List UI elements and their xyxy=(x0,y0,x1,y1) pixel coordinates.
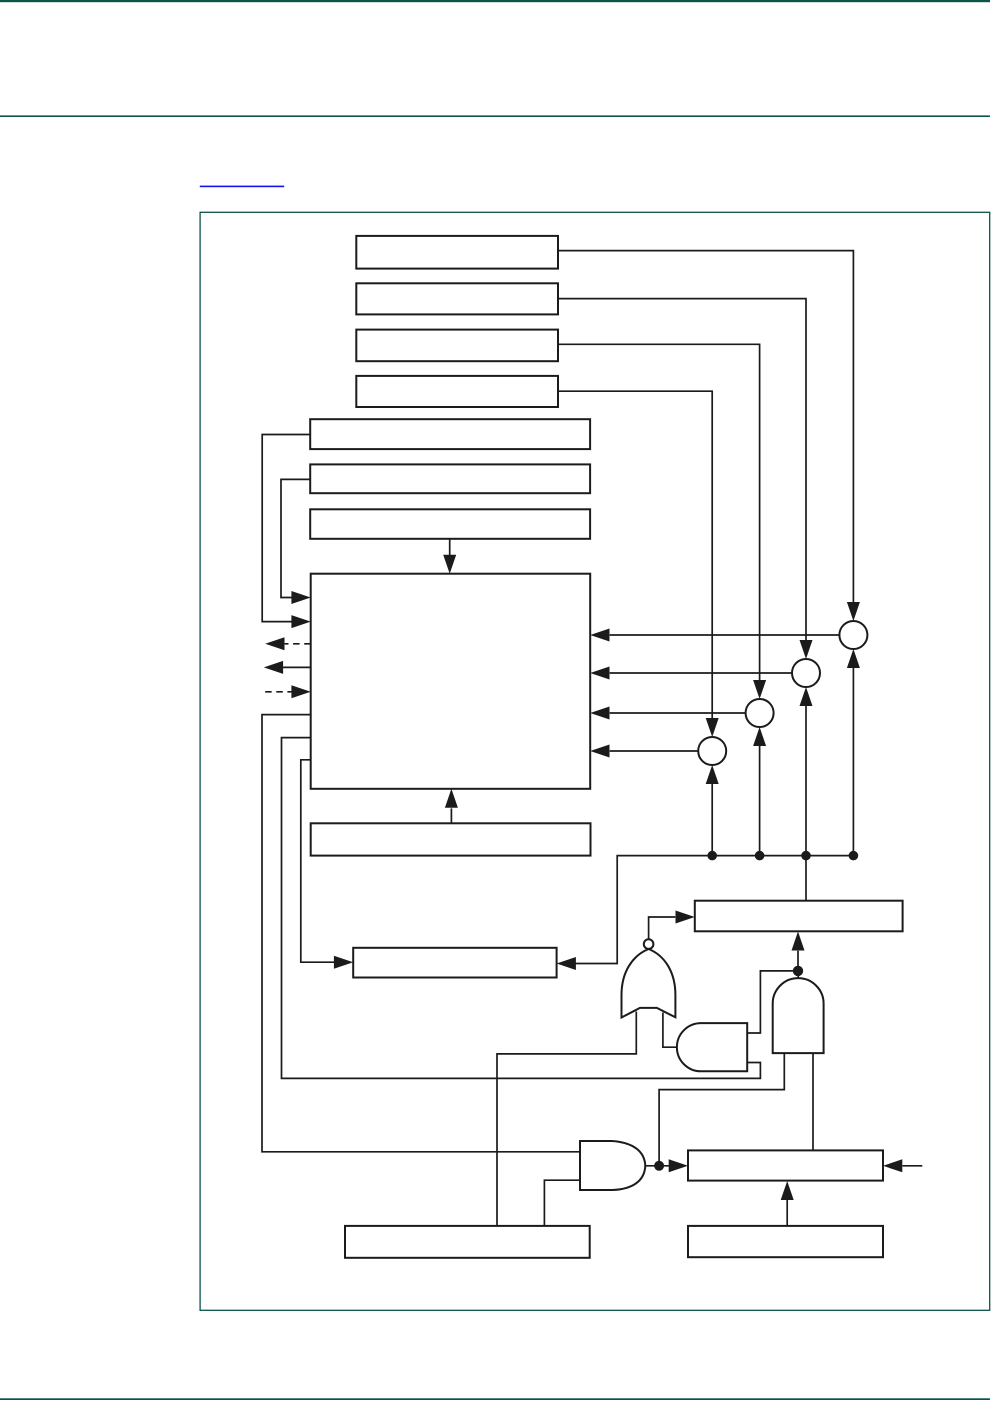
dashed output arrow upper line xyxy=(285,643,311,645)
wire up-AND right input from shift box top xyxy=(812,1053,814,1150)
wire circle C output to big box xyxy=(610,712,746,714)
wire left AND output to NOR right input xyxy=(663,1013,678,1048)
dashed input arrow line xyxy=(265,691,291,693)
arrowhead up into key box bottom xyxy=(792,932,805,951)
wire up-AND junction to left AND top input xyxy=(747,971,798,1033)
arrowhead right into big box input 1 xyxy=(291,591,310,604)
arrowhead down into circle B xyxy=(800,640,813,659)
register box 1 xyxy=(356,236,558,269)
wire box3 to circle C top xyxy=(558,344,760,680)
mixer circle B xyxy=(792,659,820,687)
wire up-AND output stub xyxy=(797,971,799,979)
arrowhead left dashed output xyxy=(265,637,284,650)
left AND gate (pointing left) xyxy=(677,1023,747,1071)
wire bus riser to circle A bottom xyxy=(852,668,854,856)
arrowhead up into circle B xyxy=(800,687,813,706)
arrowhead left into big box from C xyxy=(590,707,609,720)
wire horizontal key bus with corner down to left box xyxy=(575,856,854,964)
wire NOR output to key box xyxy=(649,917,676,939)
arrowhead right into big box input 2 xyxy=(291,615,310,628)
link underline xyxy=(200,186,284,188)
bottom-left box xyxy=(345,1226,590,1258)
big central block xyxy=(311,574,591,789)
register box 4 xyxy=(356,376,558,407)
wire big box line to left box input xyxy=(301,760,334,962)
arrowhead left into big box from D xyxy=(590,745,609,758)
wire bus riser to circle C bottom xyxy=(759,746,761,856)
header rule top xyxy=(0,0,990,2)
key register box xyxy=(695,901,903,932)
arrowhead down into circle A xyxy=(847,602,860,621)
wire up-AND left input from lower AND junction xyxy=(659,1053,784,1166)
junction dot lower AND output xyxy=(654,1161,664,1171)
arrowhead up into shift box bottom xyxy=(781,1181,794,1200)
wire big box line to lower AND top input xyxy=(262,715,580,1152)
junction dot bus A xyxy=(849,851,859,861)
wire box1 to circle A top xyxy=(558,251,853,603)
arrowhead up into circle C xyxy=(753,727,766,746)
arrowhead left external into shift box xyxy=(883,1159,902,1172)
junction dot bus C xyxy=(755,851,765,861)
arrowhead right lower AND output into shift box xyxy=(669,1159,688,1172)
wire bus riser to circle D bottom xyxy=(711,784,713,856)
wire lower AND output to junction and box xyxy=(645,1165,669,1167)
wire bus riser to circle B bottom xyxy=(805,706,807,856)
wire lower AND bottom input from bottom-left box xyxy=(544,1180,580,1226)
junction dot bus D xyxy=(707,851,717,861)
arrowhead up into circle A xyxy=(847,649,860,668)
wire box7 down to big box top xyxy=(449,539,451,555)
arrowhead down box7 into big box xyxy=(443,555,456,574)
wire key box top riser xyxy=(805,856,807,901)
wire circle A output to big box xyxy=(610,634,840,636)
arrowhead left into big box from B xyxy=(590,667,609,680)
arrowhead up under-box into big box xyxy=(445,789,458,808)
wire box6 to big box input 1 xyxy=(281,479,310,597)
wire box4 to circle D top xyxy=(558,391,712,718)
shift register box xyxy=(688,1150,883,1180)
footer rule xyxy=(0,1398,990,1400)
junction dot up-AND output xyxy=(793,966,803,976)
wire circle D output to big box xyxy=(610,750,699,752)
mixer circle C xyxy=(746,699,774,727)
up AND gate (pointing up) xyxy=(773,978,824,1053)
arrowhead right into left box xyxy=(334,956,353,969)
wire box2 to circle B top xyxy=(558,299,806,641)
register box 3 xyxy=(356,330,558,362)
junction dot bus B xyxy=(801,851,811,861)
wire under-box up to big box bottom xyxy=(450,808,452,823)
arrowhead left solid output xyxy=(264,661,283,674)
mixer circle A xyxy=(839,621,867,649)
header rule lower xyxy=(0,115,990,117)
box under big block xyxy=(311,823,591,855)
wire box5 to big box input 2 xyxy=(262,435,310,622)
wire bottom-right box up to shift box xyxy=(786,1200,788,1226)
figure frame xyxy=(200,212,990,1310)
arrowhead down into circle C xyxy=(753,680,766,699)
bottom-right box xyxy=(688,1226,883,1257)
NOR gate body (pointing up) xyxy=(622,949,676,1018)
NOR gate bubble xyxy=(644,939,654,949)
arrowhead left into left box right edge xyxy=(557,957,576,970)
register box 6 xyxy=(310,464,590,493)
wire circle B output to big box xyxy=(610,672,792,674)
wire big box line to left AND lower input xyxy=(282,738,761,1079)
wire external input into shift box xyxy=(903,1165,923,1167)
solid output arrow line xyxy=(283,666,311,668)
arrowhead right NOR output into key box xyxy=(676,911,695,924)
register box 5 xyxy=(310,419,590,449)
arrowhead right dashed input xyxy=(291,685,310,698)
register box 2 xyxy=(356,283,558,314)
arrowhead up into circle D xyxy=(706,765,719,784)
arrowhead left into big box from A xyxy=(590,629,609,642)
lower AND gate (pointing right) xyxy=(580,1141,645,1190)
arrowhead down into circle D xyxy=(706,718,719,737)
left status box xyxy=(353,948,556,978)
wire junction up to key box bottom xyxy=(797,951,799,971)
register box 7 xyxy=(310,509,590,539)
wire bottom-left box to NOR left input xyxy=(497,1012,636,1226)
mixer circle D xyxy=(698,737,726,765)
